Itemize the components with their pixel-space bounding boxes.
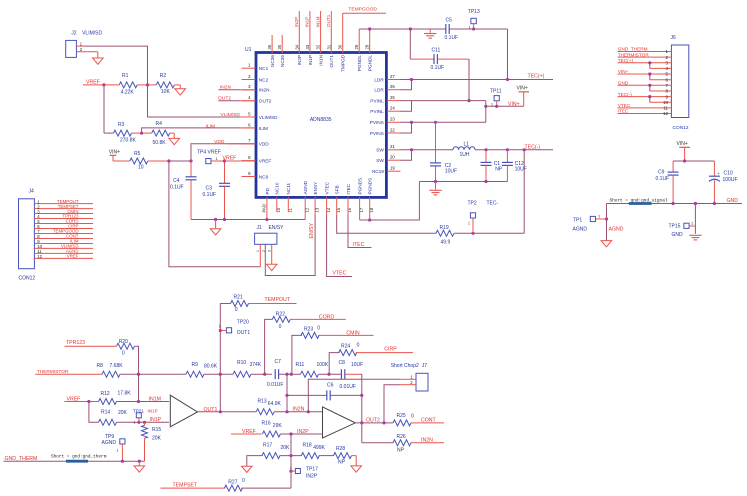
wire pin12 AGND xyxy=(304,197,306,220)
svg-text:PVINS: PVINS xyxy=(370,131,384,136)
J4 pin 9 ILIM xyxy=(34,242,93,244)
svg-text:32: 32 xyxy=(316,44,321,49)
svg-text:Short Chop2: Short Chop2 xyxy=(391,363,419,369)
svg-text:28: 28 xyxy=(365,44,370,49)
wire R14 branch xyxy=(89,402,99,423)
wire IN2P pin34 xyxy=(298,11,300,53)
svg-text:TEMPOUT: TEMPOUT xyxy=(265,297,291,303)
top PGNDL rail xyxy=(359,28,446,30)
svg-text:AGND: AGND xyxy=(573,226,588,232)
svg-text:0.01UF: 0.01UF xyxy=(267,382,283,388)
wire J1 pin1 to VDD xyxy=(259,244,261,266)
svg-text:SW: SW xyxy=(376,158,384,163)
svg-text:24: 24 xyxy=(390,106,395,111)
svg-text:100UF: 100UF xyxy=(723,177,738,183)
svg-text:C8: C8 xyxy=(339,360,346,366)
ground at TP15 xyxy=(689,234,701,236)
svg-text:C5: C5 xyxy=(446,18,453,24)
J6 jog pin3-4 xyxy=(649,63,651,69)
svg-text:80.6K: 80.6K xyxy=(204,364,218,370)
J6 jog pin7-8 xyxy=(649,85,651,91)
svg-text:J7: J7 xyxy=(422,363,428,369)
ground at gnd_therm xyxy=(138,461,140,466)
svg-text:J6: J6 xyxy=(671,35,677,41)
svg-text:VREF: VREF xyxy=(259,159,272,164)
wire ILIM to pin 6 xyxy=(142,128,205,133)
wire VREF to R16 xyxy=(231,433,262,435)
pin 27 LDR xyxy=(387,79,401,81)
capacitor C6 xyxy=(287,394,327,396)
svg-text:IN1P: IN1P xyxy=(308,55,313,65)
wire VDD from pin 7 xyxy=(191,144,255,161)
svg-text:499K: 499K xyxy=(313,445,325,451)
svg-text:VREF: VREF xyxy=(67,254,79,259)
svg-text:TP1: TP1 xyxy=(573,217,582,223)
svg-text:NC11: NC11 xyxy=(286,182,291,194)
wire VREF IN1M row xyxy=(65,401,99,403)
svg-text:1: 1 xyxy=(469,25,471,29)
wire OUT1 pin31 xyxy=(330,11,332,53)
svg-text:VTEC: VTEC xyxy=(333,270,347,276)
J4 pin 3 CMIN xyxy=(34,213,93,215)
J6 pin 11 xyxy=(618,107,672,109)
svg-text:IN1N: IN1N xyxy=(319,55,324,66)
svg-text:ADN8835: ADN8835 xyxy=(310,117,332,123)
svg-text:TP4 VREF: TP4 VREF xyxy=(197,150,221,156)
ground at R17 xyxy=(247,456,263,467)
svg-text:29: 29 xyxy=(354,44,359,49)
svg-text:CORD: CORD xyxy=(319,315,335,321)
svg-text:ITEC: ITEC xyxy=(618,109,629,114)
wire J7 pin2 to OUT2 xyxy=(384,385,400,423)
J6 pin 7 xyxy=(618,84,672,86)
svg-text:0.1UF: 0.1UF xyxy=(445,35,459,41)
svg-text:TEC(+): TEC(+) xyxy=(528,73,545,79)
connector J2 xyxy=(66,40,77,57)
resistor R23 CMIN xyxy=(292,335,302,374)
J6 pin 5 xyxy=(618,73,672,75)
svg-text:OUT1: OUT1 xyxy=(326,14,331,27)
ground at J1 xyxy=(266,264,277,270)
J6 pin 2 xyxy=(618,56,672,58)
svg-text:31: 31 xyxy=(326,44,331,49)
svg-text:20K: 20K xyxy=(152,436,162,442)
svg-text:LDR: LDR xyxy=(374,88,384,93)
svg-text:VDD: VDD xyxy=(259,142,270,147)
svg-text:R5: R5 xyxy=(134,151,141,157)
svg-text:27: 27 xyxy=(390,74,395,79)
svg-text:ENSY: ENSY xyxy=(313,181,318,195)
wire J2 pin1 to VLIM/SD xyxy=(76,45,84,47)
wire OUT2 row xyxy=(355,422,393,424)
svg-text:1UH: 1UH xyxy=(460,152,470,158)
svg-text:SW: SW xyxy=(376,148,384,153)
J6 pin 4 xyxy=(650,67,672,69)
svg-text:CON12: CON12 xyxy=(19,275,36,281)
svg-text:VDD: VDD xyxy=(214,139,225,145)
svg-text:20: 20 xyxy=(390,155,395,160)
svg-text:IN2P: IN2P xyxy=(306,473,318,479)
wire J2 pin2 to ground xyxy=(76,51,97,53)
J6 pin 10 xyxy=(650,101,672,103)
svg-text:R3: R3 xyxy=(118,122,125,128)
svg-text:R9: R9 xyxy=(192,362,199,368)
svg-text:0: 0 xyxy=(242,478,245,484)
svg-text:IN2P: IN2P xyxy=(294,17,299,27)
wire TEMPSET vertical xyxy=(290,434,292,488)
svg-text:1: 1 xyxy=(117,449,119,453)
resistor R24 CIRP xyxy=(329,353,339,374)
svg-text:4.22K: 4.22K xyxy=(121,89,135,95)
svg-text:VTEC: VTEC xyxy=(325,181,330,194)
svg-text:PVINS: PVINS xyxy=(370,120,384,125)
svg-text:TPR123: TPR123 xyxy=(66,340,85,346)
svg-text:NC9: NC9 xyxy=(259,174,269,179)
svg-text:R16: R16 xyxy=(262,421,271,427)
pin 23 PVINS xyxy=(387,121,401,123)
svg-text:TP2: TP2 xyxy=(468,201,477,207)
wire PGNDS riser xyxy=(360,182,420,221)
svg-text:R22: R22 xyxy=(276,311,285,317)
svg-text:TP11: TP11 xyxy=(490,89,502,95)
svg-text:IN2N: IN2N xyxy=(421,437,433,443)
svg-text:R26: R26 xyxy=(397,434,406,440)
pin 20 SW xyxy=(387,159,401,161)
svg-text:21: 21 xyxy=(390,144,395,149)
resistor R15 xyxy=(144,422,146,425)
wire TEC(-) row xyxy=(475,149,553,151)
svg-text:35: 35 xyxy=(277,44,282,49)
svg-text:1: 1 xyxy=(290,466,292,470)
stub pin11 xyxy=(287,197,289,212)
pin 6 ILIM xyxy=(242,127,256,129)
svg-text:0.1UF: 0.1UF xyxy=(656,176,670,182)
svg-text:AGND: AGND xyxy=(609,226,624,232)
ground at J2 xyxy=(93,58,104,64)
pin 22 PVINS xyxy=(387,132,401,134)
ground at C2 xyxy=(435,182,437,190)
ground at R2 xyxy=(175,89,186,95)
wire IN2N to J7 pin1 xyxy=(308,379,400,412)
wire J1 pin3 to ground xyxy=(271,244,273,264)
svg-text:TP20: TP20 xyxy=(237,319,249,325)
svg-text:0: 0 xyxy=(235,307,238,313)
J6 pin 3 xyxy=(618,62,672,64)
svg-text:EN/SY: EN/SY xyxy=(269,225,285,231)
wire VREF vertical to R3 xyxy=(103,85,105,133)
svg-text:J2: J2 xyxy=(71,31,77,37)
svg-text:1: 1 xyxy=(691,221,693,225)
wire PVINL row xyxy=(400,100,486,102)
svg-text:TEMPGOOD: TEMPGOOD xyxy=(348,6,377,12)
J6 jog pin5-6 xyxy=(649,74,651,80)
wire PGNDL pin28 xyxy=(369,29,371,53)
svg-text:LDR: LDR xyxy=(374,77,384,82)
wire R19 to TEC- xyxy=(454,232,524,234)
svg-text:10K: 10K xyxy=(161,89,171,95)
wire ITEC from pin16 xyxy=(347,197,349,215)
svg-text:11: 11 xyxy=(663,106,668,111)
J6 pin 9 xyxy=(618,96,672,98)
svg-text:VLIM/SD: VLIM/SD xyxy=(259,115,278,120)
svg-text:TMPGD: TMPGD xyxy=(341,54,346,72)
wire R20 to therm node xyxy=(135,346,139,401)
svg-text:AGND: AGND xyxy=(102,440,117,446)
J4 pin 1 TEMPOUT xyxy=(34,203,93,205)
svg-text:U1: U1 xyxy=(245,47,252,53)
wire C9/C10 top rail xyxy=(673,160,714,162)
svg-text:26: 26 xyxy=(390,84,395,89)
svg-text:IN1P: IN1P xyxy=(150,417,162,423)
svg-text:R28: R28 xyxy=(336,446,345,452)
svg-text:50.8K: 50.8K xyxy=(153,140,167,146)
svg-text:CIRP: CIRP xyxy=(384,347,397,353)
svg-text:R27: R27 xyxy=(228,480,237,486)
svg-text:GND_THERM: GND_THERM xyxy=(618,47,648,52)
svg-text:R17: R17 xyxy=(263,442,272,448)
wire pin26 join xyxy=(400,80,412,90)
wire VTEC from pin14 xyxy=(326,197,328,215)
svg-text:29K: 29K xyxy=(273,423,283,429)
wire EN/SY from pin13 xyxy=(314,197,316,215)
pin 4 OUT2 xyxy=(242,100,256,102)
J4 pin 10 VLIM/SD xyxy=(34,247,93,249)
svg-text:EN/SY: EN/SY xyxy=(309,222,315,238)
svg-text:10UF: 10UF xyxy=(351,362,363,368)
wire TEC+ drop xyxy=(507,29,509,80)
svg-text:10UF: 10UF xyxy=(515,167,527,173)
svg-text:VIN+: VIN+ xyxy=(508,101,520,107)
wire pin22 join xyxy=(400,122,412,133)
svg-text:IN1M: IN1M xyxy=(315,16,320,27)
wire pin24 join xyxy=(400,101,412,112)
wire OUT1 row xyxy=(198,411,257,413)
wire SW row xyxy=(400,149,453,151)
svg-text:3: 3 xyxy=(267,250,271,252)
pin 26 LDR xyxy=(387,89,401,91)
svg-text:J4: J4 xyxy=(29,189,35,195)
pin 25 PVINL xyxy=(387,100,401,102)
svg-text:NC36: NC36 xyxy=(270,55,275,67)
J4 pin 2 TEMPSET xyxy=(34,208,93,210)
svg-text:NC10: NC10 xyxy=(275,182,280,194)
svg-text:CMIN: CMIN xyxy=(346,331,360,337)
ground at R4 xyxy=(169,138,180,144)
svg-text:NP: NP xyxy=(495,167,503,173)
svg-text:CON12: CON12 xyxy=(673,125,689,131)
svg-text:270.8K: 270.8K xyxy=(120,137,137,143)
ground at AGND rail xyxy=(215,220,217,229)
svg-text:PGNDL: PGNDL xyxy=(357,55,362,72)
wire gnd_therm row xyxy=(4,460,145,462)
svg-text:NC35: NC35 xyxy=(280,55,285,67)
svg-text:10: 10 xyxy=(138,165,144,171)
svg-text:TEC-: TEC- xyxy=(487,201,499,207)
svg-text:7.68K: 7.68K xyxy=(110,363,124,369)
pin 1 NC1 xyxy=(242,67,256,69)
wire IN1P pin33 xyxy=(309,11,311,53)
pin 9 NC9 xyxy=(242,176,256,178)
svg-text:IN1M: IN1M xyxy=(149,396,161,402)
svg-text:VIN+: VIN+ xyxy=(517,86,528,92)
wire VDD row xyxy=(169,160,191,162)
svg-text:0.1UF: 0.1UF xyxy=(431,65,445,71)
svg-text:IN2N: IN2N xyxy=(259,88,270,93)
svg-text:1: 1 xyxy=(256,250,260,252)
J6 pin 12 xyxy=(618,113,672,115)
svg-text:R15: R15 xyxy=(152,427,161,433)
svg-text:NC1: NC1 xyxy=(259,66,269,71)
wire TEC(-) riser xyxy=(523,150,525,234)
svg-text:R25: R25 xyxy=(397,413,406,419)
svg-text:0.01UF: 0.01UF xyxy=(340,384,356,390)
svg-text:33: 33 xyxy=(305,44,310,49)
svg-text:PGNDS: PGNDS xyxy=(358,178,363,195)
svg-text:20K: 20K xyxy=(118,410,128,416)
resistor R21 xyxy=(220,303,230,305)
pin 24 PVINL xyxy=(387,110,401,112)
ground at TP1 xyxy=(601,241,612,247)
svg-text:+: + xyxy=(717,171,720,176)
svg-text:1: 1 xyxy=(219,325,221,329)
svg-text:R4: R4 xyxy=(156,121,163,127)
svg-text:R12: R12 xyxy=(101,391,110,397)
wire VDD label to pin7 xyxy=(228,143,255,145)
svg-text:1: 1 xyxy=(468,222,470,226)
node ILIM junction xyxy=(140,132,143,135)
op-amp A1 xyxy=(170,395,197,427)
J6 pin 8 xyxy=(650,90,672,92)
wire pin20 join xyxy=(400,150,412,160)
J4 pin 4 TPR123 xyxy=(34,218,93,220)
svg-text:TEC(-): TEC(-) xyxy=(618,92,632,97)
pin 21 SW xyxy=(387,149,401,151)
pin 7 VDD xyxy=(242,143,256,145)
svg-text:VLIM/SD: VLIM/SD xyxy=(82,31,102,37)
svg-text:374K: 374K xyxy=(250,362,262,368)
wire C11 to PVINL xyxy=(468,59,470,101)
svg-text:OUT2: OUT2 xyxy=(259,99,272,104)
wire pin17 PGNDS xyxy=(359,197,361,220)
svg-text:0: 0 xyxy=(279,324,282,330)
svg-text:20K: 20K xyxy=(281,445,291,451)
wire PVINS row xyxy=(400,121,486,123)
svg-text:IN2P: IN2P xyxy=(297,429,309,435)
svg-text:49.9: 49.9 xyxy=(441,240,451,246)
svg-text:J1: J1 xyxy=(257,225,263,231)
svg-text:PGNDL: PGNDL xyxy=(368,55,373,72)
wire C-bank ground rail xyxy=(419,181,507,183)
svg-text:0: 0 xyxy=(411,413,414,419)
J6 jog pin9-10 xyxy=(649,97,651,103)
svg-text:10UF: 10UF xyxy=(445,168,457,174)
svg-text:TP13: TP13 xyxy=(468,9,480,15)
svg-text:PVINL: PVINL xyxy=(370,109,384,114)
wire IN1M pin32 xyxy=(320,11,322,53)
svg-text:R2: R2 xyxy=(160,73,167,79)
ground at R28 xyxy=(351,466,362,472)
svg-text:0: 0 xyxy=(357,343,360,349)
svg-text:TEC(+): TEC(+) xyxy=(618,58,634,63)
J6 pin 6 xyxy=(650,79,672,81)
svg-text:GND: GND xyxy=(672,232,684,238)
svg-text:NC2: NC2 xyxy=(259,77,269,82)
wire THERMISTOR row xyxy=(35,373,102,375)
wire PGNDL pin29 xyxy=(358,29,360,53)
wire OUT2 net vertical xyxy=(361,374,363,443)
pin 2 NC2 xyxy=(242,79,256,81)
svg-text:30: 30 xyxy=(338,44,343,49)
J4 pin 7 TEMPGOOD xyxy=(34,232,93,234)
svg-text:0: 0 xyxy=(122,351,125,357)
svg-text:R13: R13 xyxy=(258,399,267,405)
svg-text:NP: NP xyxy=(397,448,405,454)
wire TEMPSET row xyxy=(161,487,226,489)
svg-text:OUT1: OUT1 xyxy=(237,330,251,336)
svg-text:C9: C9 xyxy=(658,170,665,176)
pin 5 VLIM/SD xyxy=(242,116,256,118)
wire TP1 AGND branch xyxy=(606,204,608,241)
svg-text:CONT: CONT xyxy=(421,417,437,423)
wire OUT1 net vertical xyxy=(219,304,221,412)
resistor R26 xyxy=(362,442,393,444)
svg-text:1: 1 xyxy=(598,214,600,218)
stub pin35 xyxy=(281,35,283,53)
svg-text:C4: C4 xyxy=(173,178,180,184)
wire TEMPGOOD pin30 xyxy=(342,13,344,53)
ground at PGNDL rail xyxy=(429,29,431,33)
wire SFB from pin15 xyxy=(336,197,338,215)
wire TPR123 to R20 xyxy=(65,345,117,347)
J6 pin 1 xyxy=(618,51,672,53)
svg-text:VIN+: VIN+ xyxy=(618,69,629,74)
node VLIM/SD junction xyxy=(146,83,149,86)
stub pin36 xyxy=(271,35,273,53)
svg-text:THERMISTOR: THERMISTOR xyxy=(618,52,650,57)
svg-text:23: 23 xyxy=(390,117,395,122)
svg-text:ILIM: ILIM xyxy=(206,123,216,129)
svg-text:C11: C11 xyxy=(432,48,441,54)
svg-text:64.9K: 64.9K xyxy=(268,401,282,407)
svg-text:0.1UF: 0.1UF xyxy=(203,192,217,198)
svg-text:R1: R1 xyxy=(122,73,129,79)
pin 8 VREF xyxy=(242,160,256,162)
svg-text:VTEC: VTEC xyxy=(618,103,631,108)
svg-text:GND: GND xyxy=(618,81,629,86)
svg-text:19: 19 xyxy=(390,166,395,171)
svg-text:IN2N: IN2N xyxy=(293,407,305,413)
svg-text:OUT1: OUT1 xyxy=(329,55,334,68)
svg-text:OUT1: OUT1 xyxy=(204,407,218,413)
svg-text:R10: R10 xyxy=(237,360,246,366)
svg-text:GND: GND xyxy=(727,198,739,204)
svg-text:R21: R21 xyxy=(234,295,243,301)
J4 pin 11 AGND xyxy=(34,252,93,254)
svg-text:C3: C3 xyxy=(206,186,213,192)
svg-text:R24: R24 xyxy=(341,344,350,350)
svg-text:12: 12 xyxy=(37,254,42,259)
svg-text:ITEC: ITEC xyxy=(353,242,365,248)
svg-text:12: 12 xyxy=(663,111,669,116)
svg-text:0.1UF: 0.1UF xyxy=(170,185,184,191)
svg-text:2: 2 xyxy=(262,250,266,252)
svg-text:34: 34 xyxy=(294,44,299,49)
svg-text:C7: C7 xyxy=(275,359,282,365)
svg-text:C10: C10 xyxy=(724,171,733,177)
svg-text:36: 36 xyxy=(267,44,272,49)
J4 pin 8 CONT xyxy=(34,237,93,239)
svg-text:Short = gnd:gnd_therm: Short = gnd:gnd_therm xyxy=(51,455,107,460)
